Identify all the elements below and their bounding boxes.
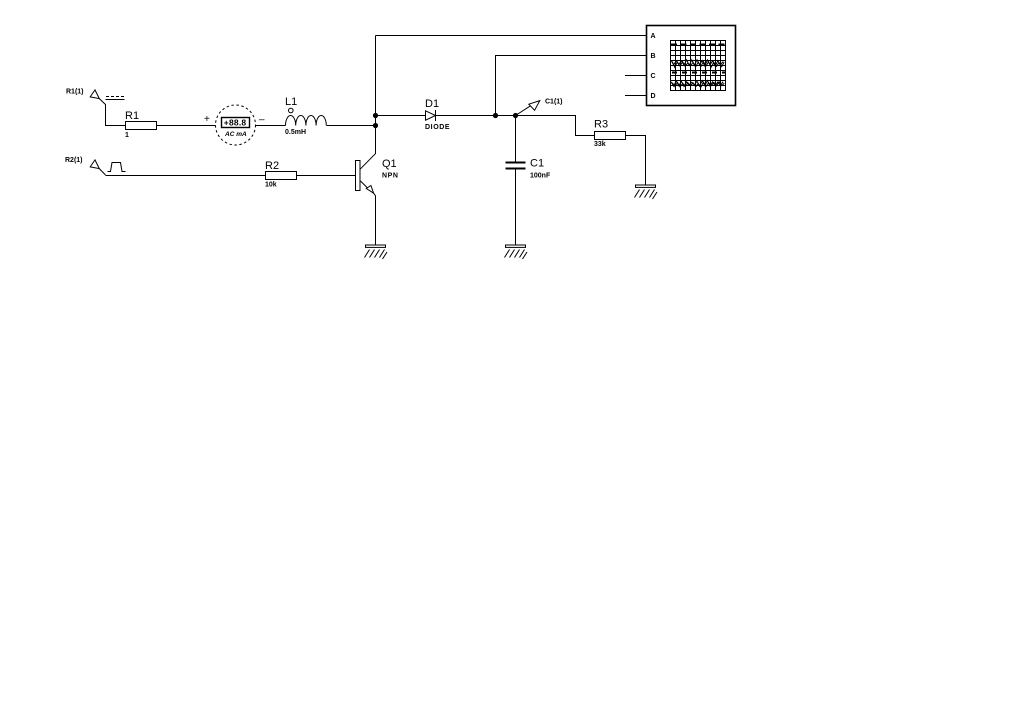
wire trunk vertical: [375, 36, 377, 155]
svg-text:NPN: NPN: [382, 173, 399, 180]
resistor R3: [595, 132, 626, 140]
node junction C1 branch: [513, 113, 518, 118]
pulse waveform icon: [108, 163, 126, 172]
svg-text:Q1: Q1: [382, 158, 397, 170]
probe R2(1): [90, 160, 105, 175]
wire R3 to ground: [626, 136, 646, 186]
svg-text:R1: R1: [125, 110, 139, 122]
wire stub scope D: [625, 95, 646, 97]
svg-text:+: +: [204, 114, 210, 125]
oscilloscope OSC1: [647, 26, 736, 106]
wire node C1 to R3: [516, 116, 595, 136]
svg-text:D1: D1: [425, 98, 439, 110]
svg-text:DIODE: DIODE: [425, 124, 450, 131]
wire R2 to base: [297, 175, 356, 177]
probe R1(1): [90, 90, 105, 105]
svg-text:100nF: 100nF: [530, 173, 551, 180]
scope screen grid: [671, 41, 726, 91]
scope trace waveform D: [671, 81, 723, 87]
wire probe to R2: [106, 175, 266, 177]
wire R1 to ammeter: [157, 125, 216, 127]
wire ammeter to L1: [256, 125, 286, 127]
resistor R2: [266, 172, 297, 180]
diode D1: [426, 110, 436, 121]
ground under C1: [505, 245, 528, 259]
inductor L1: [286, 108, 327, 125]
svg-text:R2(1): R2(1): [65, 157, 83, 164]
wire node B to node C1: [496, 115, 516, 117]
probe C1(1): [516, 101, 540, 116]
svg-text:L1: L1: [285, 96, 297, 108]
wire trunk to diode: [376, 115, 426, 117]
svg-text:R3: R3: [594, 119, 608, 131]
capacitor C1: [506, 116, 526, 246]
svg-text:0.5mH: 0.5mH: [285, 129, 306, 136]
svg-text:C: C: [651, 73, 656, 80]
wire node B up to scope B: [496, 56, 647, 116]
scope trace waveform B: [671, 60, 723, 66]
svg-text:A: A: [651, 33, 656, 40]
svg-text:B: B: [651, 53, 656, 60]
node junction diode/scope-B branch: [493, 113, 498, 118]
resistor R1: [126, 122, 157, 130]
scope trace dashed top: [671, 44, 725, 46]
ammeter AM1: [216, 105, 256, 145]
ground under Q1: [365, 245, 388, 259]
wire top rail to scope A: [376, 35, 647, 37]
wire probe to R1: [106, 104, 126, 126]
wire emitter to ground: [375, 196, 377, 246]
svg-text:R1(1): R1(1): [66, 89, 84, 96]
svg-text:AC mA: AC mA: [224, 131, 247, 138]
svg-text:–: –: [259, 115, 265, 126]
DC waveform icon: [106, 97, 125, 100]
svg-text:33k: 33k: [594, 141, 606, 148]
svg-text:+88.8: +88.8: [224, 117, 247, 127]
wire stub scope C: [625, 75, 646, 77]
svg-text:C1: C1: [530, 158, 544, 170]
wire L1 to trunk: [327, 125, 376, 127]
transistor Q1: [356, 154, 376, 196]
svg-text:D: D: [651, 93, 656, 100]
svg-text:1: 1: [125, 132, 129, 139]
node junction at trunk/main rail: [373, 123, 378, 128]
svg-text:R2: R2: [265, 160, 279, 172]
node junction at trunk/diode rail: [373, 113, 378, 118]
svg-text:10k: 10k: [265, 182, 277, 189]
scope trace dashed middle: [672, 72, 725, 74]
ground under R3: [635, 185, 658, 199]
svg-text:C1(1): C1(1): [545, 99, 563, 106]
wire diode to node B: [436, 115, 496, 117]
